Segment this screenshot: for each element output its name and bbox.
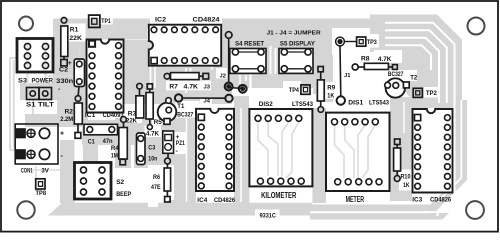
copper pour top-left around R1 C2 [53,19,87,101]
svg-text:CD4093: CD4093 [103,112,124,119]
svg-text:+: + [60,131,64,138]
white pocket IC2 label [150,10,222,25]
wire J2 vertical [225,32,232,39]
capacitor C1 [84,124,118,135]
white pocket R7 J3 label [166,81,211,91]
white pocket T1 label [176,101,200,118]
white pocket TP3 label [366,34,380,48]
white pocket TP4 label [283,81,301,97]
svg-text:TP1: TP1 [101,18,111,25]
copper patch R10 area [390,97,412,201]
resistor R6 [166,164,168,168]
white pocket TP1 label [100,14,113,25]
display DIS2 [249,109,312,186]
test point TP8 [36,179,45,189]
resistor R10 [395,139,401,145]
capacitor C2 [74,59,84,87]
svg-text:DIS1: DIS1 [348,100,363,107]
test point TP1 [89,15,100,27]
trace left of IC1 [79,44,81,58]
svg-text:LTS543: LTS543 [369,100,389,107]
white pocket BC327 T2 label [384,70,417,81]
transistor Q1 T1 [158,103,177,122]
svg-text:C3: C3 [148,145,155,152]
svg-text:4.7K: 4.7K [378,56,392,63]
svg-text:S2: S2 [116,179,124,186]
svg-text:PZ1: PZ1 [176,140,185,147]
copper bottom band lower right [310,213,449,220]
svg-text:1K: 1K [327,93,334,100]
svg-text:-: - [176,148,178,155]
svg-text:+: + [176,134,180,141]
copper patch R3 R4 column [115,118,131,168]
copper strip right of IC3 [456,100,468,180]
svg-text:1K: 1K [403,182,410,189]
copper pour behind R9 J1 [313,55,333,102]
resistor R7 [164,73,170,79]
copper trace top band [86,19,385,29]
mounting hole bottom left [17,201,34,218]
svg-text:22K: 22K [69,35,82,42]
svg-text:TP2: TP2 [426,90,437,97]
test point TP2 [413,88,422,97]
svg-text:BC327: BC327 [388,71,404,78]
copper patch R2 C1 area [57,98,136,145]
svg-text:S5 DISPLAY: S5 DISPLAY [280,40,315,47]
svg-text:KILOMETER: KILOMETER [261,191,296,200]
IC U4 IC4 [196,109,234,191]
svg-text:S1 TILT: S1 TILT [26,102,55,109]
white pocket TP2 label [424,87,440,98]
svg-text:T1: T1 [177,103,184,110]
trace gap channel between S4 S5 [270,46,272,74]
trace inside METER box [335,125,345,178]
svg-text:CD4824: CD4824 [193,17,220,24]
copper patch behind S1 [20,83,57,100]
svg-text:J1 - J4 = JUMPER: J1 - J4 = JUMPER [267,30,322,36]
mounting hole top right [468,18,485,35]
svg-text:IC1: IC1 [85,112,96,119]
trace gap right column [438,100,462,202]
white pocket R3 label [125,109,142,123]
trace below CON1 [35,166,37,180]
svg-text:IC2: IC2 [155,17,166,24]
copper column between DIS2 and METER [312,108,326,203]
white pocket R6 area [148,165,174,207]
svg-text:TP3: TP3 [367,39,377,46]
svg-text:J4: J4 [204,98,211,104]
svg-text:TP4: TP4 [289,87,299,94]
svg-text:R7: R7 [169,83,178,90]
svg-text:10n: 10n [148,156,157,163]
svg-text:22K: 22K [126,117,137,124]
copper pour behind S4 S5 [222,26,332,88]
trace gap ring 4 top right [385,45,431,70]
white pocket 9331C label [255,210,280,220]
display DIS1 meter box [326,113,390,191]
switch S3 [17,39,53,73]
copper column left of IC4 [168,104,196,203]
white pocket DIS2 label [249,94,316,108]
svg-text:4.7K: 4.7K [146,131,159,138]
svg-text:T2: T2 [410,74,417,81]
svg-text:3V: 3V [41,168,49,175]
resistor R8 [352,64,358,70]
white pocket PZ1 label [175,132,187,154]
trace gap bottom band [310,211,430,213]
svg-text:47E: 47E [151,184,161,191]
trace inside IC3 [423,113,425,189]
svg-text:R5: R5 [154,119,162,126]
svg-text:J3: J3 [204,85,211,91]
switch S1 [27,88,40,100]
copper column left of S2 [60,140,75,203]
svg-text:BEEP: BEEP [116,191,131,198]
svg-text:DIS2: DIS2 [259,101,273,108]
white pocket R10 label [399,170,412,191]
copper patch above CON1 [25,114,60,127]
trace inside DIS2 [258,122,268,176]
svg-text:LTS543: LTS543 [292,101,313,108]
mounting hole top left [19,17,33,31]
capacitor C3 [137,133,146,165]
wire J1 [339,46,342,96]
svg-text:S4 RESET: S4 RESET [235,40,265,47]
trace gap ring 1 top right [385,23,455,216]
svg-text:+: + [68,60,72,67]
switch S5 [279,49,313,74]
resistor R3 [137,83,143,89]
transistor Q2 T2 [386,78,405,97]
test point TP4 [301,85,310,94]
switch S2 [75,163,112,200]
test point TP3 with pad [336,37,345,46]
svg-text:1M: 1M [111,153,118,160]
white pocket J2 label [216,68,227,79]
svg-text:9331C: 9331C [260,213,276,220]
svg-text:R6: R6 [153,174,160,181]
svg-text:IC3: IC3 [412,197,422,204]
svg-text:CD4826: CD4826 [430,197,451,204]
trace S3 to IC1 [56,45,60,47]
copper diagonal join [431,180,468,210]
white pocket R9 label [326,82,338,99]
trace gap channels center [150,66,152,96]
white pocket S2 label [112,170,148,199]
svg-text:R1: R1 [70,27,79,34]
jumper J3 [225,83,233,91]
white pocket DIS1 label [342,94,390,107]
svg-text:J2: J2 [220,73,226,79]
copper column right of IC4 [234,96,249,203]
copper pour center around IC2 T1 jumpers [124,40,232,104]
IC U3 IC3 [413,109,453,193]
copper column CON1 to S2 [83,145,98,163]
svg-text:R9: R9 [327,85,335,92]
copper pour top right [370,15,462,109]
piezo PZ1 [163,131,174,153]
switch S4 [230,49,266,74]
svg-text:R8: R8 [361,56,370,63]
resistor R1 [61,18,67,24]
jumper J4 [175,94,182,101]
white pocket R5 label [152,117,162,126]
connector CON1 [15,124,58,164]
svg-text:330n: 330n [56,78,73,85]
svg-text:CD4826: CD4826 [214,197,235,204]
svg-text:J1: J1 [344,73,351,79]
svg-text:S3: S3 [18,78,27,85]
white pocket R8 label [374,50,402,63]
copper bottom band left [48,203,312,216]
mounting hole bottom right [466,201,484,219]
white pocket R1 label [69,24,86,42]
trace gap ring 3 top right [385,38,439,103]
svg-text:R10: R10 [401,174,411,181]
svg-text:R2: R2 [65,109,74,116]
resistor R2 [75,96,81,102]
IC U2 IC2 [149,25,221,66]
copper pour above IC1 [86,19,147,40]
svg-text:METER: METER [346,195,365,204]
svg-text:R4: R4 [111,145,119,152]
resistor R9 [318,67,323,72]
resistor R5 [147,84,152,89]
svg-text:POWER: POWER [32,78,54,85]
svg-text:C1: C1 [88,139,95,146]
svg-text:-: - [58,86,60,93]
copper patch PZ1 C3 area [134,118,178,168]
svg-text:CON1: CON1 [21,168,33,175]
svg-text:4.7K: 4.7K [184,83,199,90]
svg-text:IC4: IC4 [197,197,207,204]
resistor R4 [121,117,127,123]
svg-text:BC327: BC327 [177,111,193,118]
copper bottom band upper right [310,205,437,212]
svg-text:C2: C2 [59,67,68,74]
trace gap ring 2 top right [385,30,447,103]
svg-text:TP8: TP8 [36,190,47,197]
IC U1 IC1 [87,40,124,113]
svg-text:2.2M: 2.2M [60,116,73,123]
white pocket J4 label [200,99,212,105]
trace inside IC4 [206,112,208,188]
